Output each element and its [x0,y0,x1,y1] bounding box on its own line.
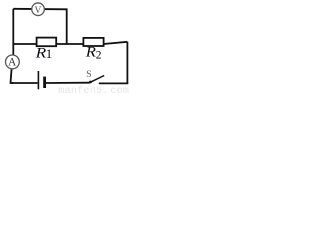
svg-text:A: A [8,57,17,69]
svg-text:2: 2 [96,50,102,62]
svg-text:1: 1 [46,46,53,61]
svg-text:S: S [86,70,91,80]
svg-text:com: com [110,86,129,94]
svg-text:manfen5.: manfen5. [58,85,108,94]
svg-text:R: R [85,45,96,61]
svg-text:V: V [34,6,41,16]
svg-text:R: R [34,46,46,62]
